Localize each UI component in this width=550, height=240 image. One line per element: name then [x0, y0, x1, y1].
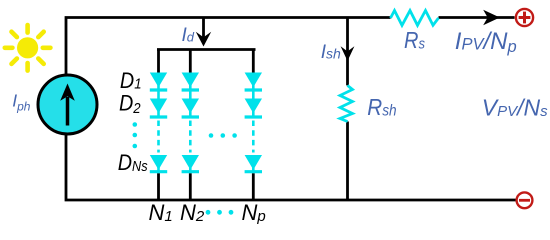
svg-text:DNs: DNs: [118, 151, 148, 175]
svg-text:N2: N2: [180, 200, 205, 225]
svg-text:D1: D1: [120, 69, 142, 93]
svg-text:D2: D2: [119, 91, 141, 116]
svg-text:Np: Np: [242, 200, 266, 225]
svg-text:Iph: Iph: [12, 91, 31, 114]
svg-text:Id: Id: [182, 25, 195, 46]
svg-text:Ish: Ish: [321, 42, 341, 63]
svg-text:Rs: Rs: [404, 27, 425, 54]
svg-text:N1: N1: [149, 200, 173, 225]
svg-text:Rsh: Rsh: [367, 94, 396, 121]
svg-text:IPV/Np: IPV/Np: [455, 28, 517, 56]
svg-text:VPV/Ns: VPV/Ns: [482, 95, 548, 121]
